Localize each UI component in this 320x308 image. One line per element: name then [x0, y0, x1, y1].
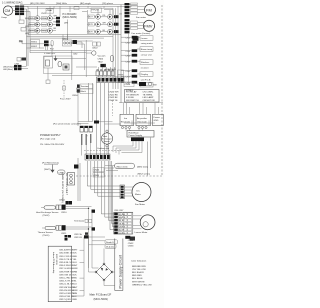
svg-text:CN7: CN7 [126, 77, 131, 79]
svg-text:CN50: CN50 [72, 95, 78, 97]
svg-text:(TH01): (TH01) [43, 235, 50, 237]
svg-text:3.15A 250V: 3.15A 250V [44, 52, 56, 55]
relay grid center-right labels [88, 15, 94, 33]
horizontal wires y121-124 [78, 84, 121, 126]
svg-text:YE 4 D: YE 4 D [119, 223, 126, 225]
svg-text:BRN: BRN [73, 271, 78, 273]
screw terminals x80-91 [80, 126, 92, 137]
power supply circuit borders [115, 239, 123, 291]
svg-text:CN CONN.: CN CONN. [143, 92, 154, 94]
ion generator box [120, 103, 134, 129]
svg-text:SYMBOL: SYMBOL [126, 90, 134, 92]
black box near power border [125, 236, 130, 239]
svg-text:MCC-5009: MCC-5009 [55, 254, 57, 265]
relay grid left : circles with triangles [35, 16, 52, 33]
svg-text:WHT WHITE: WHT WHITE [132, 281, 145, 283]
small box + black box right y82-87 [124, 82, 157, 87]
svg-text:Block: Block [81, 91, 87, 93]
svg-text:CN2-B BK 25: CN2-B BK 25 [59, 253, 73, 255]
svg-text:GND: GND [154, 120, 159, 122]
capsule component [58, 62, 62, 67]
half-wave power supply box [127, 131, 154, 142]
small arrow symbol y56 [54, 56, 57, 61]
svg-text:LED(Timer): LED(Timer) [3, 65, 14, 68]
svg-text:CN1: CN1 [126, 38, 131, 40]
top right tiny rows [128, 237, 134, 247]
pin table outside labels [73, 250, 79, 302]
svg-text:Terminator: Terminator [74, 220, 85, 223]
svg-text:Power Supply Circuit: Power Supply Circuit [119, 255, 123, 288]
svg-text:SW02: SW02 [31, 46, 38, 48]
svg-text:(MCC-5009): (MCC-5009) [63, 15, 77, 19]
ion/air wires down to half-wave area [126, 129, 143, 131]
fan motor connector stack upper [125, 3, 130, 17]
svg-text:RED: RED [73, 278, 78, 280]
svg-text:Frame: Frame [154, 116, 161, 119]
svg-text:FMV: FMV [144, 23, 153, 28]
wires band y40-56 [19, 34, 82, 56]
dashed separator above connector row [84, 150, 121, 152]
vertical bus wires from strip down [89, 83, 109, 155]
svg-text:Room temp: Room temp [141, 48, 153, 51]
third small box right of air purifier [153, 103, 164, 126]
small black box mid [100, 64, 106, 67]
sensor junction marks [92, 210, 96, 231]
svg-text:1 2 3: 1 2 3 [66, 190, 68, 196]
svg-text:Louver: Louver [141, 37, 148, 40]
relay grid center-right header [91, 8, 102, 12]
svg-text:FM: FM [146, 7, 152, 12]
heat exchange sensor capsule TH02 [36, 205, 67, 217]
svg-text:GRN: GRN [73, 290, 78, 292]
svg-text:CN6: CN6 [126, 71, 131, 73]
fan motor label boxes lower [131, 21, 138, 29]
svg-text:CN60: CN60 [98, 59, 104, 61]
air purifier box [136, 103, 151, 129]
mains verticals [78, 158, 80, 201]
svg-text:4WAY: 4WAY [47, 9, 53, 12]
terminal block box with screws [66, 173, 75, 196]
svg-text:BLK: BLK [73, 253, 78, 255]
louver motor [133, 215, 155, 234]
svg-text:CN2: CN2 [126, 43, 131, 45]
svg-text:CN32: CN32 [128, 243, 134, 245]
box outline with inner detail (44-52,56-68) [44, 57, 53, 69]
svg-text:BLK: BLK [73, 296, 78, 298]
svg-text:CN9-I BK 25: CN9-I BK 25 [59, 274, 72, 276]
svg-text:BRN BROWN: BRN BROWN [132, 266, 146, 268]
inner component bottom-right of box [63, 64, 69, 70]
compressor motor CM [1, 6, 13, 19]
small boxes mid-right [85, 219, 92, 222]
svg-text:CN1-A WH 18: CN1-A WH 18 [59, 249, 74, 252]
right mains verticals [148, 138, 151, 176]
relay grid center-right connectors [114, 15, 119, 33]
svg-text:Outdoor unit: Outdoor unit [97, 147, 109, 150]
vertical text POWER SUPPLY strip [61, 172, 67, 203]
svg-text:Power Supply: Power Supply [129, 134, 143, 137]
wires screws to connector row [82, 143, 107, 156]
svg-text:BL 6 F: BL 6 F [119, 230, 125, 232]
svg-text:Display: Display [141, 74, 149, 76]
top small box pair y42 [92, 42, 100, 50]
small capsule right of text column [111, 56, 114, 62]
fuse capsule F02 [51, 41, 53, 47]
svg-text:BLU: BLU [73, 262, 78, 264]
svg-text:CN3: CN3 [126, 51, 131, 53]
svg-text:sensor unit: sensor unit [141, 53, 152, 56]
extra wires terminal to center [52, 41, 96, 76]
svg-text:CN12-L BL 52: CN12-L BL 52 [59, 284, 73, 286]
vertical wire labels below screws [81, 134, 91, 145]
svg-text:(For wired remote controller): (For wired remote controller) [53, 123, 81, 126]
TB label boxes left of vertical bus [77, 84, 93, 94]
wires from CM cluster [13, 6, 30, 66]
fan motor FM [136, 4, 156, 19]
svg-text:Fan motor (Louver): Fan motor (Louver) [132, 32, 151, 35]
svg-text:GREEN & YELLOW: GREEN & YELLOW [132, 284, 152, 286]
svg-text:GRN: GRN [73, 268, 78, 270]
dashed vertical left [112, 100, 114, 116]
fan motor FMV [132, 20, 155, 41]
svg-text:Heat Exchange Sensor: Heat Exchange Sensor [36, 211, 59, 214]
svg-text:OR 5 E: OR 5 E [119, 227, 126, 229]
rows mid lower [74, 232, 88, 238]
black box right of earth [74, 165, 79, 169]
svg-text:BLU: BLU [73, 284, 78, 286]
wire label text block left of legend [109, 92, 119, 102]
svg-text:WHT: WHT [73, 250, 79, 252]
svg-text:CN33: CN33 [128, 246, 134, 248]
svg-text:Comp: Comp [1, 17, 8, 19]
svg-text:BLK BLACK: BLK BLACK [132, 271, 144, 274]
svg-text:CN3-C RD 31: CN3-C RD 31 [59, 256, 73, 258]
svg-text:POWER SUPPLY: POWER SUPPLY [40, 133, 61, 137]
vertical wires continuing down from connector row [87, 161, 120, 230]
svg-text:Main P.C.Board 2F: Main P.C.Board 2F [90, 293, 112, 297]
svg-text:(WH) 50Hz: (WH) 50Hz [56, 3, 67, 5]
svg-text:P.FUSE: P.FUSE [92, 9, 100, 11]
svg-text:BLU BLUE: BLU BLUE [132, 278, 143, 280]
labels near center grid [103, 14, 123, 33]
heat exchanger sensor circle [101, 130, 112, 147]
svg-text:Sensor: Sensor [104, 141, 111, 143]
svg-text:(MCC-5049): (MCC-5049) [94, 297, 108, 301]
small boxes above diamond [105, 240, 118, 249]
text column mid [98, 56, 106, 64]
2x2 box cluster left of border [118, 70, 124, 83]
black cluster bottom [65, 235, 72, 241]
3-pin terminal block y40 [62, 38, 72, 46]
horizontal wire group under dashed line [105, 166, 118, 171]
svg-text:CN11: CN11 [61, 233, 67, 235]
right dashed border [161, 5, 163, 176]
svg-text:CN12 A: CN12 A [74, 233, 82, 236]
svg-text:WHT: WHT [73, 287, 79, 289]
svg-text:WH 2 B: WH 2 B [119, 217, 126, 219]
small boxes under row [93, 168, 104, 178]
svg-text:CN7-G GR 66: CN7-G GR 66 [59, 268, 74, 270]
fuse capsule F01 [45, 45, 47, 50]
LED label rows with connectors [3, 58, 28, 72]
svg-text:DC: DC [137, 191, 141, 193]
black box left of diamond wires [84, 235, 89, 238]
svg-text:(RD) 220-240V: (RD) 220-240V [30, 3, 45, 5]
sensor section black box top [59, 200, 72, 205]
svg-text:CN30: CN30 [125, 84, 131, 86]
pin table box bottom-left [48, 246, 71, 302]
svg-text:TH SENSOR: TH SENSOR [126, 94, 139, 96]
earth arrow [51, 165, 54, 173]
svg-text:CN42 BK: CN42 BK [109, 97, 119, 99]
terminal strip y77-83 [97, 77, 125, 83]
svg-text:RED RED: RED RED [132, 275, 142, 277]
svg-text:receiver: receiver [141, 66, 149, 69]
svg-text:TB02: TB02 [98, 62, 104, 64]
svg-text:CN17-Q RD: CN17-Q RD [59, 299, 71, 301]
svg-text:SW01: SW01 [31, 41, 38, 43]
svg-text:RED: RED [73, 299, 78, 301]
legend box [125, 90, 160, 103]
svg-text:CN43 YE: CN43 YE [109, 100, 119, 102]
svg-text:CN10: CN10 [61, 212, 67, 214]
svg-text:DL(L01): DL(L01) [106, 247, 114, 249]
svg-text:CN44: CN44 [59, 200, 65, 202]
svg-text:RD 1 A: RD 1 A [119, 213, 126, 216]
power supply text block [40, 123, 81, 147]
left verticals mid band [84, 40, 86, 77]
top bus wires [5, 5, 137, 17]
svg-text:(MXZ 2wls): (MXZ 2wls) [137, 167, 148, 169]
svg-text:Fan motor: Fan motor [136, 16, 146, 19]
svg-text:BRN: BRN [73, 293, 78, 295]
wires relay grid center-right [94, 17, 114, 32]
main pcb label [90, 293, 112, 301]
svg-text:Fan Motor: Fan Motor [135, 203, 145, 206]
svg-text:CN5: CN5 [126, 62, 131, 64]
svg-text:Vacuum: Vacuum [98, 56, 106, 58]
svg-text:CN21: CN21 [94, 175, 100, 177]
svg-text:CN31: CN31 [128, 240, 134, 242]
svg-text:BLK: BLK [73, 274, 78, 276]
svg-text:(TH02): (TH02) [43, 215, 50, 217]
outer box around mid components [44, 56, 73, 74]
relay grid center-right circles [96, 14, 113, 34]
svg-text:(OR): (OR) [25, 26, 29, 28]
svg-text:LED LAMP: LED LAMP [143, 96, 154, 99]
connector block TB cluster [15, 6, 24, 16]
svg-text:(3P): (3P) [64, 23, 68, 25]
svg-text:(For single unit): (For single unit) [40, 138, 55, 141]
fan motor label boxes upper [131, 3, 138, 14]
mid bus lines y34-39 [27, 20, 122, 41]
dark box below louver grid [130, 237, 136, 241]
wires from half-wave box to left bus [113, 121, 155, 155]
svg-text:(BK) single: (BK) single [80, 3, 91, 5]
svg-text:TB TERM.: TB TERM. [143, 94, 154, 96]
svg-text:CN22: CN22 [92, 48, 98, 50]
svg-text:SW SWITCH: SW SWITCH [126, 100, 139, 102]
svg-text:Motor: Motor [135, 193, 141, 196]
svg-text:F FUSE: F FUSE [126, 97, 134, 99]
svg-text:LED(Run): LED(Run) [3, 69, 13, 71]
svg-text:(Micro Drit): (Micro Drit) [117, 165, 128, 168]
fan motor connector stack lower [125, 19, 130, 33]
svg-text:Diode D: Diode D [106, 242, 114, 244]
svg-text:GR 7 G: GR 7 G [119, 233, 126, 235]
wires feeding strip [76, 64, 115, 77]
svg-text:CN2: CN2 [73, 54, 78, 56]
svg-text:CN4: CN4 [126, 56, 131, 58]
relay grid left : labels [29, 17, 47, 33]
diode bridge diamond [95, 263, 113, 281]
svg-text:Thermo Sensor: Thermo Sensor [38, 231, 53, 234]
svg-text:CN41 RD: CN41 RD [109, 94, 119, 96]
mid-left small boxes y39-48 [30, 40, 92, 55]
svg-text:CN8-H BR 73: CN8-H BR 73 [59, 271, 73, 273]
svg-text:POWER SUPPLY (OUTDOOR): POWER SUPPLY (OUTDOOR) [61, 172, 63, 203]
svg-text:swing motor: swing motor [141, 42, 153, 45]
black box right of terminal [73, 40, 78, 44]
svg-text:Indoor PCB Assembly: Indoor PCB Assembly [52, 252, 55, 274]
svg-text:Color Indication: Color Indication [131, 260, 147, 263]
svg-text:Wireless: Wireless [141, 61, 150, 64]
svg-text:1-1 WIRING DIAG.: 1-1 WIRING DIAG. [2, 2, 23, 5]
svg-text:(For HA terminal): (For HA terminal) [42, 162, 59, 165]
louver connector grid [114, 210, 133, 235]
svg-text:WHT: WHT [73, 265, 79, 267]
mid connector column [56, 17, 60, 26]
svg-text:CM: CM [5, 9, 11, 13]
fuse chain left of strip [46, 68, 71, 101]
svg-text:CN13 B: CN13 B [74, 237, 82, 239]
svg-text:CN5-E BL 52: CN5-E BL 52 [59, 262, 73, 264]
scatter wire labels top band [25, 13, 57, 35]
svg-text:YEL YELLOW: YEL YELLOW [132, 269, 147, 271]
svg-text:CN13: CN13 [41, 13, 46, 15]
PCB right border [120, 5, 122, 104]
small inline parts below CM cluster [19, 20, 24, 24]
thermo sensor capsule TH01 [38, 225, 68, 237]
svg-text:(YE) phase: (YE) phase [102, 3, 114, 5]
svg-text:Louver Motor: Louver Motor [135, 231, 148, 234]
border line above ion boxes [119, 102, 163, 104]
black box above screws [94, 121, 99, 124]
svg-text:CM MOTOR: CM MOTOR [143, 100, 156, 102]
HA terminal note [42, 162, 59, 165]
svg-text:Air purifier: Air purifier [137, 117, 147, 120]
DC motor [125, 183, 152, 202]
svg-text:CN6-F WH 18: CN6-F WH 18 [59, 265, 74, 267]
svg-text:Half-Wave: Half-Wave [129, 132, 140, 134]
svg-text:unit P.C.B: unit P.C.B [141, 78, 151, 81]
svg-text:1N ~50Hz 220-230-240V: 1N ~50Hz 220-230-240V [40, 144, 65, 146]
HA circle [86, 51, 96, 55]
svg-text:BK 3 C: BK 3 C [119, 220, 126, 222]
CN oval label [58, 170, 66, 175]
svg-text:RED: RED [73, 256, 78, 258]
MXZ capsule label [115, 163, 151, 175]
svg-text:(MXZ series): (MXZ series) [138, 173, 151, 176]
svg-text:Terminal: Terminal [81, 85, 90, 88]
header box above relays [46, 9, 54, 13]
wires bottom section [72, 237, 115, 296]
bottom dashed border of MXZ section [76, 175, 162, 177]
svg-text:Fuse 250V: Fuse 250V [60, 99, 71, 101]
svg-text:CN4-D YE 44: CN4-D YE 44 [59, 259, 73, 261]
wires relay grid left [28, 18, 56, 31]
svg-text:(WHT): (WHT) [44, 169, 51, 171]
sensor wires [66, 201, 92, 268]
svg-text:CN40 WH: CN40 WH [109, 92, 119, 94]
svg-text:(BL): (BL) [25, 18, 29, 20]
right side CN rows (x121-160 y36-84) [104, 6, 153, 89]
connector row y155-161 [85, 147, 110, 160]
DC motor connector [120, 185, 125, 199]
pin table rows [59, 249, 75, 302]
svg-text:CN6 CN7: CN6 CN7 [114, 210, 124, 212]
color indication legend [131, 260, 152, 287]
svg-text:CN20: CN20 [94, 170, 100, 172]
varistor row y71 [96, 69, 114, 75]
